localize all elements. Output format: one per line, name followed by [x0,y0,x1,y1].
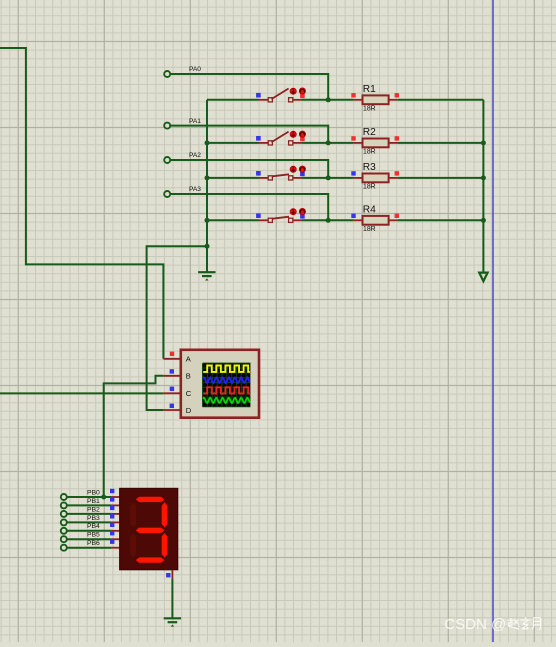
pin stub PB6 [112,547,120,549]
segment d (lit) [136,557,165,562]
switch right terminal [289,218,293,222]
svg-text:18R: 18R [363,106,376,113]
segment c (lit) [162,533,168,558]
segment b (lit) [162,502,168,527]
wire bus to switch row 2 [207,142,259,144]
pin stub PB4 [112,530,120,532]
switch left terminal [268,141,272,145]
svg-text:R4: R4 [363,204,376,215]
wire switch to resistor row 3 [302,177,353,179]
svg-text:PB3: PB3 [87,515,100,522]
wire bus to switch row 4 [207,219,259,221]
junction left bus [205,140,210,145]
wire scope channel C from left edge [0,392,163,394]
terminal PA1 [164,123,170,129]
wire PB1 [67,504,112,506]
svg-text:CSDN @: CSDN @ [444,616,506,633]
wire from left edge to oscilloscope channel A [0,48,163,359]
switch actuator button (arrow) [290,131,296,137]
switch lever [273,174,290,176]
wire bus to switch row 3 [207,177,259,179]
svg-text:PA0: PA0 [189,66,201,73]
wire switch pin stub left [259,99,269,101]
junction right bus [481,175,486,180]
watermark [444,616,506,633]
pin A [163,358,181,360]
segment e (off) [130,533,136,558]
pin marker C (blue) [170,387,174,391]
waveform channel D (green sine) [203,398,250,403]
wire PA1 to row junction [170,126,328,143]
switch actuator button (latch) [299,131,305,137]
switch actuator button (latch) [299,166,305,172]
pin stub display common [171,570,173,579]
logic state marker switch row 3 [256,171,261,176]
switch actuator latch state square [300,214,305,219]
pin marker display common (blue) [166,573,170,577]
wire switch pin stub right [293,99,302,101]
junction row 3 [326,175,331,180]
svg-text:18R: 18R [363,226,376,233]
switch actuator button (arrow) [290,166,296,172]
wire PB3 [67,521,112,523]
resistor R2 pin squares [351,136,355,140]
junction right bus [481,218,486,223]
switch right terminal [289,176,293,180]
resistor R2 [353,142,362,144]
waveform channel C (red square) [203,387,250,393]
svg-text:PA2: PA2 [189,152,201,159]
svg-text:PB6: PB6 [87,540,100,547]
pin marker A (red) [170,352,174,356]
segment g (lit) [136,528,165,533]
svg-text:18R: 18R [363,149,376,156]
wire PA2 to row junction [170,160,328,178]
svg-text:R3: R3 [363,162,376,173]
terminal PB5 [61,536,67,542]
pin stub PB2 [112,513,120,515]
segment a (lit) [136,497,165,502]
wire right bus [482,100,484,273]
switch actuator button (latch) [299,88,305,94]
pin stub PB0 [112,496,120,498]
wire resistor to right bus row 2 [398,142,484,144]
wire PA0 to row junction [170,74,328,100]
wire resistor to right bus row 1 [398,99,484,101]
junction left bus [205,175,210,180]
pin stub PB1 [112,504,120,506]
pin stub PB5 [112,538,120,540]
svg-text:C: C [186,389,192,398]
wire switch pin stub right [293,142,302,144]
svg-text:R2: R2 [363,127,376,138]
pin B [163,375,181,377]
switch right terminal [289,141,293,145]
terminal PA2 [164,157,170,163]
resistor R3 pin squares [351,171,355,175]
waveform channel A (yellow square) [203,366,250,372]
pin marker B (blue) [170,369,174,373]
terminal PA0 [164,71,170,77]
ground [198,271,215,273]
resistor R4 pin squares [351,214,355,218]
switch actuator button (latch) [299,208,305,214]
wire switch pin stub left [259,219,269,221]
switch left terminal [268,218,272,222]
svg-text:PA1: PA1 [189,118,201,125]
junction row 1 [326,97,331,102]
wire PB2 [67,513,112,515]
resistor R3 [353,177,362,179]
pin marker PB1 (blue) [110,497,114,501]
wire display common to ground [171,579,173,619]
terminal PB3 [61,519,67,525]
resistor R1 pin squares [351,93,355,97]
arrow terminal (down) [479,273,487,282]
pin marker PB6 (blue) [110,540,114,544]
switch actuator latch state square [300,94,305,99]
pin marker PB4 (blue) [110,523,114,527]
logic state marker switch row 4 [256,213,261,218]
wire scope channel D to ground bus [147,246,207,410]
pin marker D (blue) [170,404,174,408]
switch actuator button (arrow) [290,88,296,94]
svg-text:PA3: PA3 [189,186,201,193]
wire switch to resistor row 2 [302,142,353,144]
svg-text:R1: R1 [363,84,376,95]
pin stub PB3 [112,521,120,523]
terminal PA3 [164,191,170,197]
ground [164,617,181,619]
wire PB0 [67,496,112,498]
wire switch pin stub right [293,219,302,221]
switch actuator latch state square [300,137,305,142]
junction row 4 [326,218,331,223]
pin marker PB2 (blue) [110,506,114,510]
switch lever [272,89,289,100]
terminal PB1 [61,502,67,508]
oscilloscope body [181,350,259,418]
svg-text:D: D [186,406,192,415]
switch actuator latch state square [300,172,305,177]
resistor R1 [353,99,362,101]
switch left terminal [268,176,272,180]
wire switch to resistor row 4 [302,219,353,221]
terminal PB0 [61,494,67,500]
svg-text:PB0: PB0 [87,489,100,496]
wire PA3 to row junction [170,194,328,220]
junction left bus [205,218,210,223]
junction left bus / scope D branch [205,244,210,249]
svg-text:PB5: PB5 [87,532,100,539]
svg-text:PB4: PB4 [87,523,100,530]
terminal PB4 [61,528,67,534]
wire bus to switch row 1 [207,99,259,101]
wire resistor to right bus row 4 [398,219,484,221]
logic state marker switch row 1 [256,93,261,98]
switch lever [273,217,290,219]
pin C [163,392,181,394]
terminal PB6 [61,545,67,551]
wire scope channel B from PB0 node [104,376,164,497]
junction PB0 / scope B [101,495,106,500]
wire switch pin stub left [259,142,269,144]
segment f (off) [130,502,136,527]
svg-text:PB2: PB2 [87,506,100,513]
pin marker PB3 (blue) [110,514,114,518]
pin D [163,409,181,411]
wire PB4 [67,530,112,532]
svg-text:PB1: PB1 [87,498,100,505]
wire PB5 [67,538,112,540]
junction row 2 [326,140,331,145]
switch actuator button (arrow) [290,209,296,215]
pin marker PB5 (blue) [110,531,114,535]
wire switch to resistor row 1 [302,99,353,101]
terminal PB2 [61,511,67,517]
wire switch pin stub left [259,177,269,179]
logic state marker switch row 2 [256,136,261,141]
svg-text:18R: 18R [363,184,376,191]
wire left bus to ground [206,100,208,272]
switch lever [272,132,289,143]
7-segment display body [120,488,178,570]
junction right bus [481,140,486,145]
resistor R4 [353,219,362,221]
wire PB6 [67,547,112,549]
switch right terminal [289,98,293,102]
oscilloscope screen [203,363,251,407]
waveform channel B (blue sine) [203,377,250,383]
wire resistor to right bus row 3 [398,177,484,179]
wire switch pin stub right [293,177,302,179]
pin marker PB0 (blue) [110,489,114,493]
switch left terminal [268,98,272,102]
svg-text:B: B [186,372,191,381]
